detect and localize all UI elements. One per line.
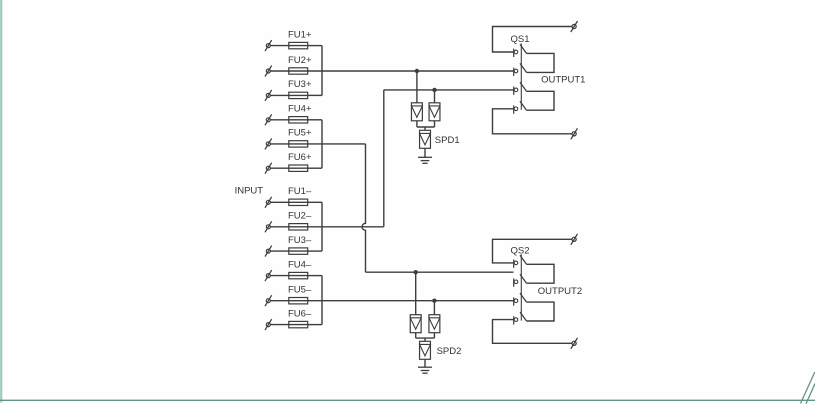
wire QS2 series link poles 3-4 [527, 302, 555, 321]
pole blade [520, 82, 527, 91]
output terminal QS1 top [572, 24, 576, 28]
pole hinge circle [514, 50, 518, 54]
surge arrester SPD2 minus [429, 315, 440, 333]
wire SPD1 common join [416, 121, 418, 127]
input terminal for FU3+ [266, 93, 270, 97]
svg-text:FU6–: FU6– [288, 308, 312, 319]
wire QS1 series link poles 1-2 [527, 53, 555, 72]
svg-text:FU2–: FU2– [288, 211, 312, 222]
surge arrester SPD2 ground element [420, 341, 431, 359]
wire QS1 bottom terminal lead [493, 109, 573, 134]
wire terminal to fuse FU4+ [270, 119, 289, 121]
wire terminal to fuse FU6+ [270, 167, 289, 169]
pole hinge circle [514, 299, 518, 303]
svg-text:FU4–: FU4– [288, 259, 312, 270]
wire QS1 top terminal lead [493, 27, 573, 53]
wire QS2 bottom terminal lead [493, 320, 573, 344]
drawing frame bottom green line [0, 399, 815, 401]
fuse FU4– [289, 272, 308, 278]
svg-text:OUTPUT1: OUTPUT1 [541, 75, 585, 86]
surge arrester SPD1 plus [411, 103, 422, 121]
pole contact bar [513, 105, 515, 113]
wire QS2 series link poles 1-2 [527, 264, 555, 283]
pole blade [520, 44, 527, 53]
wire terminal to fuse FU3– [270, 250, 289, 252]
wire minus bus 1 rightward [308, 226, 384, 228]
wire plus bus 2 rightward [308, 143, 366, 145]
wire fuse FU6– to bus [308, 324, 322, 326]
wire plus feed to QS2 [366, 271, 514, 273]
wire terminal to fuse FU5+ [270, 143, 289, 145]
svg-text:FU1–: FU1– [288, 186, 312, 197]
svg-text:SPD2: SPD2 [437, 346, 462, 357]
svg-text:FU3+: FU3+ [288, 79, 312, 90]
fuse FU2+ [289, 68, 308, 74]
fuse FU6+ [289, 165, 308, 171]
fuse FU1– [289, 199, 308, 205]
wire SPD2 to ground [424, 359, 426, 367]
fuse FU3+ [289, 92, 308, 98]
surge arrester SPD2 plus [410, 315, 421, 333]
pole contact bar [513, 278, 515, 286]
drawing frame left green line [0, 0, 2, 403]
svg-text:OUTPUT2: OUTPUT2 [538, 286, 582, 297]
pole blade [520, 274, 527, 283]
fuse FU6– [289, 321, 308, 327]
output terminal QS2 top [572, 237, 576, 241]
pole contact bar [513, 260, 515, 268]
fuse FU4+ [289, 117, 308, 123]
junction node SPD1 minus tap [432, 88, 436, 92]
surge arrester SPD1 ground element [420, 130, 431, 148]
bus wire FU4-/FU5-/FU6- [321, 276, 323, 325]
wire plus bus 2 vertical with hop over FU2- line [362, 144, 366, 272]
svg-text:FU6+: FU6+ [288, 152, 312, 163]
wire minus bus 2 to QS2 pole 3 [308, 300, 514, 302]
wire SPD2 common join [415, 333, 417, 338]
input terminal for FU5+ [266, 142, 270, 146]
wire minus feed to QS1 pole 3 [384, 89, 514, 91]
ground SPD1 [418, 156, 432, 158]
wire SPD2 minus lead [433, 301, 435, 315]
wire terminal to fuse FU4– [270, 275, 289, 277]
pole contact bar [513, 316, 515, 324]
svg-text:FU2+: FU2+ [288, 55, 312, 66]
wire SPD2 plus lead [415, 272, 417, 315]
pole blade [520, 312, 527, 321]
svg-text:QS2: QS2 [511, 245, 530, 256]
svg-text:FU1+: FU1+ [288, 29, 312, 40]
junction node SPD1 plus tap [415, 69, 419, 73]
wire terminal to fuse FU2+ [270, 70, 289, 72]
svg-text:FU5+: FU5+ [288, 128, 312, 139]
wire terminal to fuse FU3+ [270, 94, 289, 96]
pole blade [520, 293, 527, 302]
junction node SPD2 minus tap [432, 299, 436, 303]
wire SPD1 minus lead [434, 90, 436, 103]
pole hinge circle [514, 261, 518, 265]
pole hinge circle [514, 318, 518, 322]
wire fuse FU3+ to bus [308, 94, 322, 96]
pole contact bar [513, 87, 515, 95]
wire SPD1 to ground [424, 148, 426, 157]
svg-text:SPD1: SPD1 [435, 135, 460, 146]
output terminal QS2 bottom [572, 341, 576, 345]
wire plus bus 1 to QS1 pole 2 [308, 70, 514, 72]
input terminal for FU1+ [266, 44, 270, 48]
svg-text:FU5–: FU5– [288, 285, 312, 296]
wire terminal to fuse FU1+ [270, 45, 289, 47]
svg-text:FU4+: FU4+ [288, 104, 312, 115]
fuse FU5+ [289, 141, 308, 147]
pole blade [520, 63, 527, 72]
surge arrester SPD1 minus [429, 103, 440, 121]
bus wire FU1+/FU2+/FU3+ [321, 46, 323, 96]
wire fuse FU4– to bus [308, 275, 322, 277]
input terminal for FU4+ [266, 118, 270, 122]
wire SPD1 plus lead [416, 71, 418, 103]
QS1 linkage line [520, 43, 522, 109]
wire minus bus 1 vertical [383, 90, 385, 227]
input terminal for FU5– [266, 299, 270, 303]
input terminal for FU2+ [266, 69, 270, 73]
fuse FU2– [289, 224, 308, 230]
input terminal for FU6– [266, 323, 270, 327]
pole hinge circle [514, 69, 518, 73]
pole contact bar [513, 297, 515, 305]
wire fuse FU4+ to bus [308, 119, 322, 121]
bus wire FU1-/FU2-/FU3- [321, 202, 323, 251]
wire fuse FU1+ to bus [308, 45, 322, 47]
pole blade [520, 101, 527, 110]
input terminal for FU1– [266, 200, 270, 204]
wire fuse FU6+ to bus [308, 167, 322, 169]
wire terminal to fuse FU5– [270, 300, 289, 302]
junction node SPD2 plus tap [414, 270, 418, 274]
wire fuse FU3– to bus [308, 250, 322, 252]
input terminal for FU4– [266, 274, 270, 278]
frame corner double slash mark [801, 372, 815, 404]
input terminal for FU6+ [266, 166, 270, 170]
fuse FU5– [289, 298, 308, 304]
QS2 linkage line [520, 254, 522, 320]
input terminal for FU3– [266, 249, 270, 253]
wire QS1 series link poles 3-4 [527, 91, 555, 110]
pole hinge circle [514, 280, 518, 284]
svg-text:QS1: QS1 [511, 34, 530, 45]
output terminal QS1 bottom [572, 132, 576, 136]
wire terminal to fuse FU1– [270, 201, 289, 203]
ground SPD2 [418, 366, 432, 368]
pole contact bar [513, 49, 515, 57]
svg-text:FU3–: FU3– [288, 235, 312, 246]
wire terminal to fuse FU6– [270, 324, 289, 326]
wire terminal to fuse FU2– [270, 226, 289, 228]
svg-text:INPUT: INPUT [235, 186, 264, 197]
input terminal for FU2– [266, 225, 270, 229]
pole hinge circle [514, 88, 518, 92]
wire QS2 top terminal lead [493, 239, 573, 263]
fuse FU1+ [289, 42, 308, 48]
pole contact bar [513, 68, 515, 76]
pole blade [520, 255, 527, 264]
fuse FU3– [289, 248, 308, 254]
pole hinge circle [514, 107, 518, 111]
bus wire FU4+/FU5+/FU6+ [321, 120, 323, 168]
wire fuse FU1– to bus [308, 201, 322, 203]
